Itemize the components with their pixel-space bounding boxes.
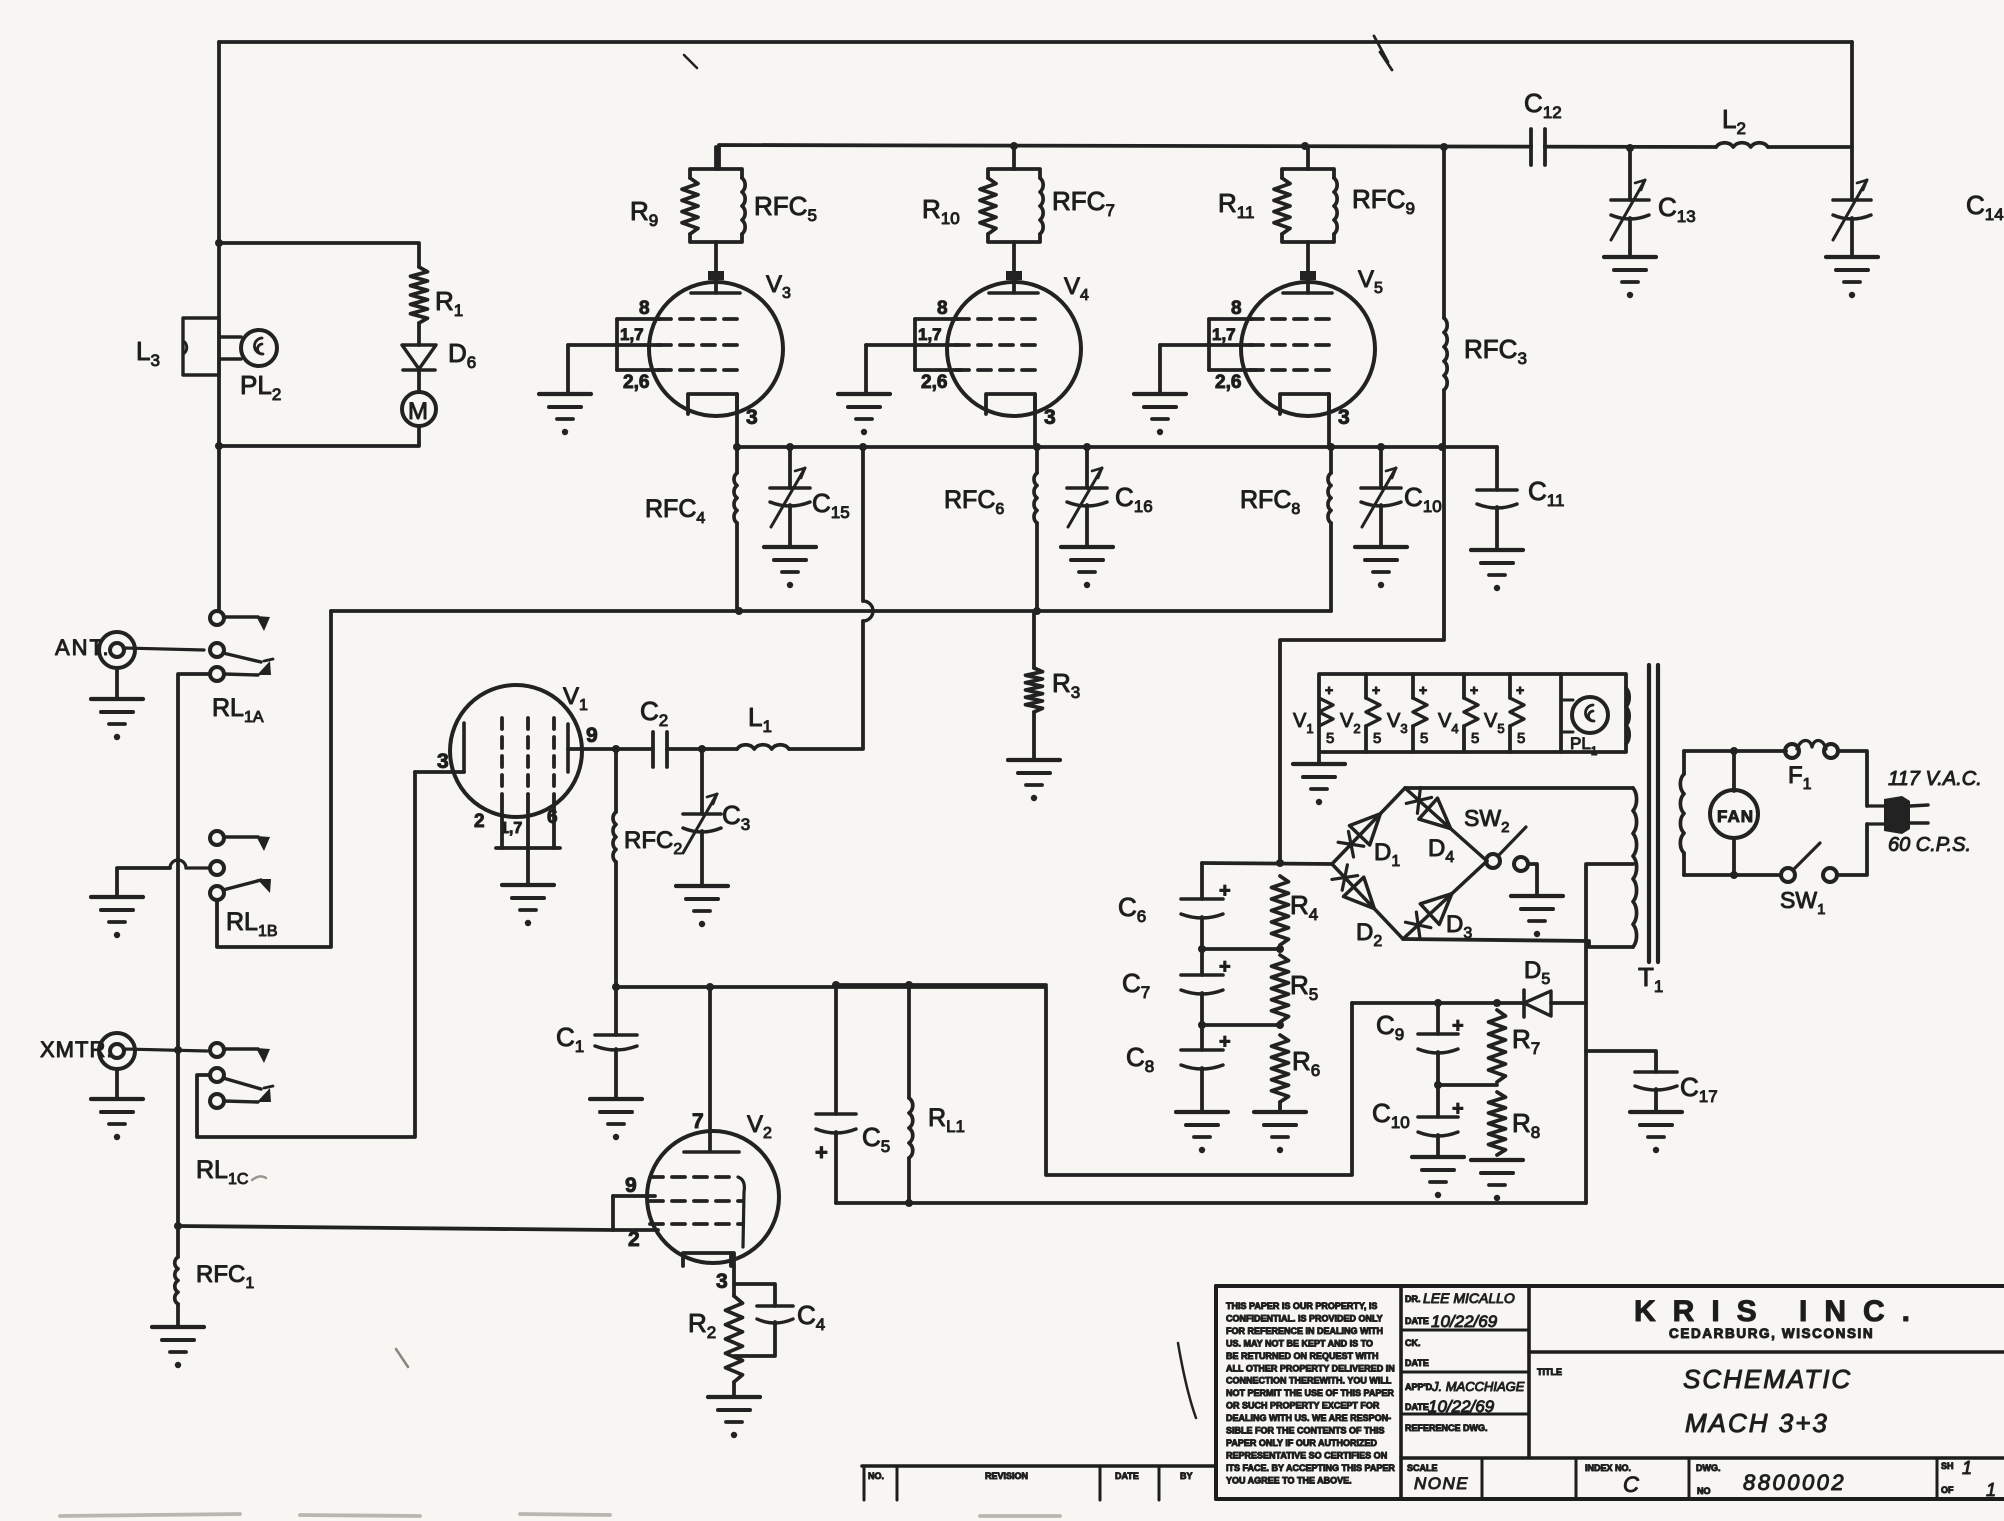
diode D1: [1332, 788, 1405, 864]
connector XMTR jack: [99, 1033, 135, 1069]
choke RFC6: [1035, 447, 1039, 473]
capacitor C10 (electrolytic): [1436, 1085, 1440, 1117]
wire V3 pin3 to cathode rail: [735, 394, 739, 447]
svg-text:8: 8: [639, 298, 650, 319]
diode D6: [402, 345, 436, 369]
wire V1 pin9 output: [568, 747, 616, 751]
inductor L1: [702, 747, 737, 751]
svg-text:NO.: NO.: [868, 1471, 884, 1481]
wire RL1A lower contact to left bus: [178, 674, 210, 1226]
cathode notch V3: [688, 394, 737, 414]
resistor R2: [726, 1296, 743, 1382]
resistor R9 / choke RFC5 parallel combo: [690, 169, 716, 178]
diode D3: [1403, 861, 1487, 939]
capacitor C8 (electrolytic): [1200, 1025, 1204, 1050]
tube V3: [708, 271, 724, 280]
svg-text:2,6: 2,6: [921, 372, 947, 393]
svg-text:3: 3: [1044, 406, 1056, 429]
resistor R10 / choke RFC7 parallel combo: [988, 169, 1014, 178]
svg-text:RFC8: RFC8: [1240, 486, 1300, 518]
V2 input bracket: [613, 1194, 655, 1198]
svg-text:1,7: 1,7: [918, 325, 942, 344]
connector ANT jack: [99, 632, 135, 668]
wire V4 pin3 to cathode rail: [1033, 394, 1037, 447]
svg-text:60 C.P.S.: 60 C.P.S.: [1888, 834, 1971, 856]
svg-text:1,7: 1,7: [1212, 325, 1236, 344]
svg-text:ITS FACE. BY ACCEPTING THIS PA: ITS FACE. BY ACCEPTING THIS PAPER: [1226, 1463, 1395, 1473]
wire C7/C8 link: [1202, 1023, 1280, 1027]
wire bias rail: [1352, 1001, 1500, 1005]
plug 117VAC: [1867, 804, 1884, 807]
svg-text:FAN: FAN: [1717, 807, 1754, 826]
svg-text:ANT.: ANT.: [55, 635, 111, 660]
svg-text:J. MACCHIAGE: J. MACCHIAGE: [1431, 1379, 1525, 1394]
ground C16: [1061, 545, 1113, 549]
capacitor C16 (variable): [1085, 447, 1089, 488]
wire right drop to C14 node: [1850, 42, 1854, 147]
svg-text:CONNECTION THEREWITH. YOU WILL: CONNECTION THEREWITH. YOU WILL: [1226, 1376, 1392, 1386]
svg-text:+: +: [1470, 682, 1478, 698]
resistor R3: [1032, 611, 1036, 668]
svg-text:ALL OTHER PROPERTY DELIVERED I: ALL OTHER PROPERTY DELIVERED IN: [1226, 1363, 1395, 1373]
svg-text:1,7: 1,7: [500, 820, 522, 837]
ground below ANT jack: [115, 668, 119, 699]
ground C8: [1176, 1110, 1228, 1114]
ground R2 C4: [708, 1395, 760, 1399]
svg-text:C: C: [1623, 1472, 1639, 1497]
svg-text:NONE: NONE: [1414, 1474, 1469, 1493]
scan artifact bottom edge: [60, 1514, 1060, 1516]
capacitor C11: [1495, 447, 1499, 490]
svg-text:+: +: [1325, 682, 1333, 698]
svg-text:1,7: 1,7: [620, 325, 644, 344]
capacitor C4: [734, 1284, 775, 1306]
switch SW2: [1486, 854, 1500, 868]
stray pen mark left of title block: [1178, 1343, 1196, 1418]
svg-text:5: 5: [1326, 730, 1334, 747]
svg-text:BE RETURNED ON REQUEST WITH: BE RETURNED ON REQUEST WITH: [1226, 1351, 1379, 1361]
svg-text:8: 8: [1231, 298, 1242, 319]
wire C9/C10 link: [1438, 1083, 1497, 1087]
stray pen mark on plate rail: [684, 55, 697, 68]
filament V1: [1319, 698, 1333, 726]
svg-text:XMTR.: XMTR.: [40, 1037, 113, 1062]
svg-text:REFERENCE DWG.: REFERENCE DWG.: [1405, 1423, 1488, 1433]
wire T1 center tap: [1586, 864, 1633, 1203]
svg-text:2,6: 2,6: [623, 372, 649, 393]
node R1 top wire: [219, 243, 419, 267]
svg-text:RFC6: RFC6: [944, 486, 1004, 518]
wire fuse to plug: [1838, 751, 1867, 806]
svg-text:+: +: [1372, 682, 1380, 698]
svg-text:117 V.A.C.: 117 V.A.C.: [1888, 768, 1982, 790]
svg-text:M: M: [408, 398, 428, 425]
svg-text:+: +: [815, 1140, 828, 1165]
node C2/C3/L1: [698, 745, 706, 753]
svg-text:7: 7: [692, 1110, 704, 1133]
ground C10: [1412, 1155, 1464, 1159]
wire plate feed rail: [719, 145, 1716, 169]
transformer T1 primary winding: [1682, 751, 1686, 774]
svg-text:+: +: [1219, 880, 1231, 902]
svg-text:SCHEMATIC: SCHEMATIC: [1683, 1364, 1852, 1394]
wire top B+ rail: [219, 40, 1852, 44]
svg-text:3: 3: [1338, 406, 1350, 429]
ground RFC1: [152, 1325, 204, 1329]
svg-text:8800002: 8800002: [1743, 1470, 1846, 1495]
capacitor C5 (electrolytic): [832, 981, 840, 989]
capacitor C2 (series): [616, 747, 651, 751]
wire D6 to meter: [417, 370, 421, 392]
wire primary top rail: [1684, 749, 1786, 753]
wire meter M to bottom loop: [219, 426, 419, 446]
inductor RFC1: [176, 1226, 180, 1257]
wire ANT to RL1A: [124, 648, 204, 650]
inductor L2: [1716, 143, 1768, 147]
svg-text:3: 3: [746, 406, 758, 429]
fuse F1: [1785, 744, 1799, 758]
ground C13: [1604, 255, 1656, 259]
wire V3 grid lead: [568, 343, 617, 347]
ground RL1B: [91, 895, 143, 899]
wire L1 to tank vertical: [789, 621, 863, 749]
filament V2: [1364, 674, 1368, 698]
wire XMTR to RL1C: [124, 1049, 207, 1051]
capacitor C1: [614, 987, 618, 1035]
resistor R4: [1272, 876, 1289, 945]
cathode notch V2: [683, 1253, 731, 1266]
ground C15: [764, 545, 816, 549]
inductor L3 (antenna relay coil): [183, 318, 219, 375]
svg-text:REVISION: REVISION: [985, 1471, 1028, 1481]
wire C6/C7 link: [1202, 947, 1280, 951]
relay RL1C contacts: [210, 1043, 224, 1057]
ground filament: [1317, 752, 1321, 764]
svg-text:DR.: DR.: [1405, 1294, 1421, 1304]
capacitor C3 (variable): [700, 749, 704, 814]
lamp PL1: [1561, 699, 1573, 702]
wire V5 pin3 to cathode rail: [1327, 394, 1331, 447]
tube V4: [1006, 271, 1022, 280]
wire bridge bottom to secondary: [1403, 939, 1633, 947]
node RFC2 bottom: [612, 983, 620, 991]
scan smudge marks: [252, 1176, 266, 1180]
ground C1: [590, 1097, 642, 1101]
filament V4: [1462, 674, 1466, 698]
svg-text:DATE: DATE: [1405, 1402, 1429, 1412]
wire V1 grids to ground: [526, 848, 530, 885]
capacitor C17: [1586, 1051, 1656, 1072]
svg-text:OF: OF: [1941, 1485, 1954, 1495]
svg-text:SH: SH: [1941, 1461, 1954, 1471]
svg-text:NO: NO: [1697, 1486, 1711, 1496]
wire R1 to D6: [417, 323, 421, 345]
stray pen mark top: [1374, 36, 1392, 70]
svg-text:5: 5: [1517, 730, 1525, 747]
svg-text:2,6: 2,6: [1215, 372, 1241, 393]
ground R6: [1254, 1110, 1306, 1114]
revision strip: [862, 1466, 1216, 1500]
svg-text:8: 8: [937, 298, 948, 319]
svg-text:OR SUCH PROPERTY EXCEPT FOR: OR SUCH PROPERTY EXCEPT FOR: [1226, 1401, 1380, 1411]
svg-text:CK.: CK.: [1405, 1338, 1421, 1348]
svg-text:10/22/69: 10/22/69: [1428, 1397, 1495, 1416]
capacitor C13 (variable): [1628, 148, 1632, 200]
svg-text:DATE: DATE: [1115, 1471, 1139, 1481]
filament winding of T1: [1626, 688, 1629, 744]
svg-text:CEDARBURG, WISCONSIN: CEDARBURG, WISCONSIN: [1669, 1326, 1874, 1341]
svg-text:REPRESENTATIVE SO CERTIFIES ON: REPRESENTATIVE SO CERTIFIES ON: [1226, 1450, 1387, 1460]
svg-text:RFC4: RFC4: [645, 495, 705, 527]
diode D5: [1500, 1001, 1524, 1005]
wire grid return rail: [331, 609, 1331, 613]
cathode notch V5: [1280, 394, 1329, 414]
svg-text:2: 2: [474, 811, 485, 832]
divider before PL1: [1559, 674, 1563, 752]
svg-text:1: 1: [1962, 1458, 1972, 1478]
ground V4 grid: [838, 392, 890, 396]
grid lines V2: [650, 1175, 738, 1179]
svg-text:DEALING WITH US. WE ARE RESPON: DEALING WITH US. WE ARE RESPON-: [1226, 1413, 1391, 1423]
svg-text:5: 5: [1373, 730, 1381, 747]
svg-text:10/22/69: 10/22/69: [1431, 1312, 1498, 1331]
svg-text:FOR REFERENCE IN DEALING WITH: FOR REFERENCE IN DEALING WITH: [1226, 1326, 1383, 1336]
svg-text:SCALE: SCALE: [1407, 1463, 1438, 1473]
svg-text:+: +: [1419, 682, 1427, 698]
svg-text:+: +: [1452, 1098, 1464, 1120]
transformer T1 core: [1647, 665, 1651, 962]
filament V3: [1411, 674, 1415, 698]
svg-text:APP'D: APP'D: [1405, 1382, 1433, 1392]
capacitor C14 (variable): [1850, 147, 1854, 200]
svg-text:+: +: [1219, 1031, 1231, 1053]
svg-text:PAPER ONLY IF OUR AUTHORIZED: PAPER ONLY IF OUR AUTHORIZED: [1226, 1438, 1378, 1448]
wire SW2 to ground: [1528, 864, 1537, 896]
ground C11: [1471, 548, 1523, 552]
capacitor C9 (electrolytic): [1436, 1003, 1440, 1034]
ground R8: [1471, 1158, 1523, 1162]
wire plate rail to R9/RFC5: [714, 147, 718, 169]
svg-text:3: 3: [716, 1270, 728, 1293]
wire cathode rail: [737, 445, 1497, 449]
relay RL1B contacts: [210, 831, 224, 845]
svg-text:2: 2: [628, 1228, 640, 1251]
ground C14: [1826, 255, 1878, 259]
diode D4: [1405, 788, 1487, 861]
svg-text:+: +: [1516, 682, 1524, 698]
wire left main vertical (top corner down to relay RL1A): [217, 42, 221, 611]
wire SW1 to plug: [1837, 824, 1867, 875]
svg-text:YOU AGREE TO THE ABOVE.: YOU AGREE TO THE ABOVE.: [1226, 1475, 1352, 1485]
choke RFC2: [614, 749, 618, 812]
choke RFC3: [1442, 147, 1446, 318]
resistor R7: [1489, 1010, 1506, 1082]
wire RFC3 down to bleeder feed: [1280, 447, 1444, 863]
filament V5: [1508, 674, 1512, 698]
svg-text:+: +: [1452, 1015, 1464, 1037]
wire V2 plate rail to C5 RL1: [614, 985, 618, 989]
wire RL1C contact to V1 plate line: [197, 772, 415, 1137]
ground C17: [1630, 1110, 1682, 1114]
ground V3 grid: [539, 392, 591, 396]
svg-text:US. MAY NOT BE KEPT AND IS TO: US. MAY NOT BE KEPT AND IS TO: [1226, 1338, 1373, 1348]
svg-text:CONFIDENTIAL. IS PROVIDED ONLY: CONFIDENTIAL. IS PROVIDED ONLY: [1226, 1313, 1383, 1323]
svg-text:THIS PAPER IS OUR PROPERTY, IS: THIS PAPER IS OUR PROPERTY, IS: [1226, 1301, 1377, 1311]
grid lines V1: [500, 718, 504, 806]
relay RL1A contacts: [210, 611, 224, 625]
svg-text:DWG.: DWG.: [1696, 1463, 1721, 1473]
svg-text:5: 5: [1420, 730, 1428, 747]
title block border: [1216, 1286, 2004, 1499]
wire bleeder top rail: [1202, 863, 1332, 864]
resistor R11 / choke RFC9 parallel combo: [1282, 169, 1308, 178]
wire plate rail to R11/RFC9: [1306, 147, 1310, 169]
transformer T1 secondary winding: [1633, 788, 1637, 947]
wire screen feed to C9 block: [616, 987, 1352, 1175]
resistor R5: [1272, 955, 1289, 1022]
ground below XMTR jack: [115, 1069, 119, 1099]
switch SW1: [1781, 868, 1795, 882]
node V1 output: [612, 745, 620, 753]
capacitor C12 (series): [1529, 129, 1533, 165]
tube V5: [1300, 271, 1316, 280]
svg-text:+: +: [1219, 956, 1231, 978]
wire V5 grid lead: [1160, 343, 1209, 347]
wire primary bottom rail: [1684, 873, 1781, 877]
wire RFC7 to top cap of V4: [1012, 242, 1016, 273]
resistor R8: [1489, 1092, 1506, 1155]
svg-text:DATE: DATE: [1405, 1316, 1429, 1326]
lamp PL2: [219, 335, 241, 338]
tube V1: [450, 685, 582, 817]
svg-text:TITLE: TITLE: [1537, 1367, 1562, 1377]
wire RL1B lower contact to cathode return rail: [217, 611, 331, 947]
svg-text:5: 5: [1471, 730, 1479, 747]
wire RFC5 to top cap of V3: [714, 242, 718, 273]
choke RFC4: [735, 447, 739, 473]
resistor R6: [1272, 1035, 1289, 1102]
diode D2: [1332, 864, 1403, 939]
svg-text:MACH 3+3: MACH 3+3: [1685, 1408, 1829, 1438]
meter M: [402, 392, 436, 426]
svg-text:3: 3: [437, 750, 449, 773]
tube V2: [647, 1131, 779, 1263]
svg-text:BY: BY: [1180, 1471, 1193, 1481]
wire V2 pin3: [731, 1253, 734, 1296]
wire V1 plate pin3: [415, 770, 464, 774]
svg-text:6: 6: [547, 807, 558, 828]
resistor RL1 (choke): [905, 981, 913, 989]
svg-text:DATE: DATE: [1405, 1358, 1429, 1368]
wire RL1B armature to ground (hops left bus): [186, 866, 210, 869]
capacitor C10 (variable, plate tank): [1379, 447, 1383, 488]
filament supply loop: [1319, 674, 1626, 752]
svg-text:9: 9: [586, 724, 598, 747]
ground V5 grid: [1134, 392, 1186, 396]
svg-text:LEE MICALLO: LEE MICALLO: [1423, 1290, 1515, 1306]
fan motor FAN: [1732, 751, 1736, 791]
choke RFC8: [1329, 447, 1333, 473]
svg-text:SIBLE FOR THE CONTENTS OF THIS: SIBLE FOR THE CONTENTS OF THIS: [1226, 1426, 1385, 1436]
resistor R1: [411, 267, 428, 323]
capacitor C15 (variable): [788, 447, 792, 488]
svg-text:9: 9: [625, 1174, 637, 1197]
ground C10 tank: [1355, 545, 1407, 549]
cathode notch V4: [986, 394, 1035, 414]
wire plate supply loop: [836, 983, 1046, 987]
wire C5/RL1 bottom rail to PS: [836, 1201, 1586, 1205]
wire plate rail to R10/RFC7: [1012, 147, 1016, 169]
svg-text:1: 1: [1986, 1480, 1996, 1500]
wire left bus junction to V2 grid: [174, 1222, 182, 1230]
ground C3: [676, 884, 728, 888]
svg-text:NOT PERMIT THE USE OF THIS PAP: NOT PERMIT THE USE OF THIS PAPER: [1226, 1388, 1394, 1398]
svg-text:KRIS INC.: KRIS INC.: [1634, 1295, 1927, 1328]
capacitor C6 (electrolytic): [1200, 863, 1204, 899]
wire hop at x863: [863, 601, 873, 621]
ground R3: [1008, 758, 1060, 762]
wire V4 grid lead: [866, 343, 915, 347]
wire bridge top to secondary: [1405, 786, 1633, 790]
capacitor C7 (electrolytic): [1200, 949, 1204, 975]
wire V2 plate pin7: [708, 987, 712, 1150]
wire RFC9 to top cap of V5: [1306, 242, 1310, 273]
